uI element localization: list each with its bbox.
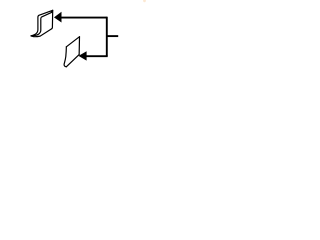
vertical bus wire [106,17,108,57]
flag symbol 1 outer ribbon edge [31,10,53,36]
flag symbol 1 apex wedge [50,10,53,13]
flag symbol 2 top edge [66,37,79,47]
wire from bus to arrowhead 2 [86,55,108,57]
arrowhead into flag 1 [55,12,62,22]
flag symbol 1 inner ribbon edge [31,12,52,36]
flag symbol 1 right edge [52,10,53,29]
flag symbol 1 bottom edge and foot [31,29,52,37]
faint smudge top right [143,0,146,2]
wire from arrowhead 1 to vertical bus [61,17,107,19]
stub branch on bus [107,35,118,37]
flag symbol 2 bottom edge [66,55,79,67]
flag symbol 2 right edge [78,37,80,55]
arrowhead into flag 2 [79,52,86,60]
flag symbol 2 left edge [64,47,66,67]
